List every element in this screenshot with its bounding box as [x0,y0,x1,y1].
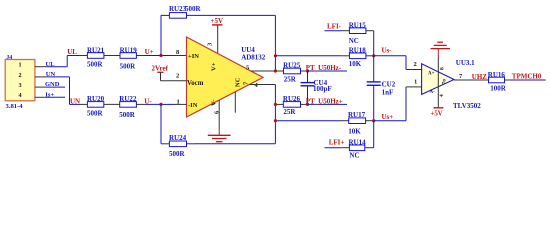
svg-text:7o: 7o [442,79,448,85]
svg-text:100R: 100R [490,84,507,92]
junction RU18 tee [274,54,277,57]
svg-text:V-: V- [211,100,218,106]
capacitor CU2 [367,56,396,121]
wire rail2 to RU20 [70,103,80,105]
resistor RU19 [120,46,138,70]
resistor RU26 [275,95,307,116]
svg-text:J4: J4 [6,55,12,61]
wire feedback bottom rail [187,143,195,145]
svg-text:RU14: RU14 [349,138,367,146]
junction RU17 row [274,119,277,122]
svg-text:NC: NC [349,37,359,45]
svg-text:3: 3 [19,82,22,89]
svg-text:RU17: RU17 [348,111,366,119]
svg-text:500R: 500R [120,62,137,70]
wire feedback bottom right vertical [274,85,276,144]
wire RU19 to node U+ [136,55,144,57]
junction RU26 row [274,103,277,106]
svg-text:TLV3502: TLV3502 [453,102,481,110]
svg-text:25R: 25R [284,76,297,84]
resistor RU16 [488,71,507,93]
wire between RU21 RU19 [104,55,120,57]
wire UN down from stub2 [69,77,71,105]
svg-text:UHZ: UHZ [472,73,488,81]
svg-text:2: 2 [414,61,417,68]
wire PT_U50Hz+ [308,103,348,105]
op-amp U4 AD8132 [176,37,266,117]
svg-text:25R: 25R [283,108,296,116]
power 2Vref port [152,65,169,81]
power +5V down port below comparator [431,108,444,118]
wire feedback bottom left vertical [160,104,162,143]
resistor RU17 [348,111,366,136]
power +5V port [211,17,224,53]
wire between RU20 RU22 [104,103,120,105]
J4 pin 2 stub [35,71,70,78]
svg-text:A-: A- [430,90,436,95]
capacitor CU4 [301,71,332,104]
svg-text:UL: UL [46,61,56,68]
svg-text:RU26: RU26 [283,95,301,103]
resistor RU15 [349,22,367,45]
J4 pin 3 stub [35,81,65,88]
resistor RU21 [87,46,105,68]
junction Us+ [372,119,375,122]
svg-text:4: 4 [439,94,445,97]
resistor RU24 [169,134,187,158]
svg-text:NC: NC [349,151,359,159]
wire RU16 to TPMCH0 [505,79,511,81]
svg-text:U+: U+ [145,48,154,56]
wire op-amp pin5 out [251,70,275,72]
wire op-amp pin4 out [249,84,275,86]
svg-text:+5V: +5V [211,17,224,25]
svg-text:U-: U- [144,98,152,106]
svg-text:RU22: RU22 [119,95,137,103]
comparator UU3.1 TLV3502 [414,59,482,110]
wire RU22 to node U- [136,103,144,105]
svg-text:Us-: Us- [382,46,393,54]
svg-text:+IN: +IN [188,53,199,60]
svg-text:RU18: RU18 [349,47,367,55]
svg-text:100pF: 100pF [313,85,332,93]
J4 pin 1 stub [35,61,67,68]
svg-text:PT_U50Hz+: PT_U50Hz+ [306,98,343,106]
svg-text:8: 8 [440,67,446,70]
svg-text:UL: UL [67,48,77,56]
wire RU14 right up to Us+ [365,147,374,149]
wire Us+ to comparator pin1 [374,120,406,122]
svg-text:RU21: RU21 [87,46,105,54]
svg-text:LFI-: LFI- [327,23,342,31]
resistor RU22 [119,95,137,119]
wire RU17 row left [275,120,340,122]
svg-text:GND: GND [45,81,60,88]
wire feedback top rail [187,14,276,16]
inverted ground above comparator [431,42,451,48]
svg-text:10K: 10K [348,127,361,135]
svg-text:4: 4 [19,92,22,99]
svg-text:2: 2 [176,73,179,80]
ground under op-amp [208,135,231,141]
resistor RU20 [87,95,105,117]
svg-text:2: 2 [19,72,22,79]
wire tee to RU18 [275,55,341,57]
svg-text:10K: 10K [349,60,362,68]
wire PT_U50Hz- [308,70,348,72]
svg-text:UU3.1: UU3.1 [456,59,475,67]
svg-text:Vocm: Vocm [187,80,204,87]
svg-text:3.81-4: 3.81-4 [6,103,24,110]
svg-text:500R: 500R [169,150,186,158]
svg-text:RU19: RU19 [120,46,138,54]
svg-text:1: 1 [19,62,22,69]
svg-text:RU23: RU23 [169,5,187,13]
svg-text:500R: 500R [87,110,104,118]
wire into op-amp pin 8 [161,55,175,57]
junction Us- [372,54,375,57]
svg-text:-IN: -IN [188,102,198,109]
connector J4 [5,55,35,110]
svg-text:Us+: Us+ [382,113,394,121]
svg-text:CU2: CU2 [382,80,396,88]
resistor RU18 [349,47,367,68]
resistor RU25 [275,62,307,84]
svg-text:500R: 500R [87,61,104,69]
op-amp pin6 V- stem [218,100,220,129]
svg-text:RU25: RU25 [283,62,301,70]
junction pin5 [274,69,277,72]
svg-text:TPMCH0: TPMCH0 [512,73,542,81]
op-amp pin7 NC stub [234,92,236,113]
wire LFI+ to RU14 [325,147,342,149]
svg-text:RU15: RU15 [349,22,367,30]
wire Vocm pin2 [161,80,187,82]
junction CU4 top [306,69,309,72]
svg-text:1nF: 1nF [382,88,394,96]
svg-text:1: 1 [414,78,417,85]
svg-text:PT_U50Hz-: PT_U50Hz- [306,64,342,72]
svg-text:Is+: Is+ [45,91,54,98]
junction CU4 bottom [306,103,309,106]
svg-text:RU20: RU20 [87,95,105,103]
wire RU17 to Us+ node [366,120,374,122]
svg-text:LFI+: LFI+ [329,138,345,146]
svg-text:NC: NC [235,77,242,87]
svg-text:A+: A+ [428,72,435,77]
wire LFI- to RU15 [325,30,342,32]
wire RU18 to Us- node [366,55,374,57]
wire feedback top left vertical [160,15,162,55]
svg-text:V+: V+ [211,62,218,71]
junction +IN [159,54,162,57]
resistor RU14 [349,138,367,159]
svg-text:500R: 500R [185,5,202,13]
svg-text:500R: 500R [119,111,136,119]
wire into op-amp pin 1 [161,103,175,105]
wire UL up from stub1 [66,56,68,67]
comparator power line pin8 pin4 [437,49,439,57]
junction -IN [159,103,162,106]
wire comparator output pin7 [454,79,489,81]
resistor RU23 [169,5,202,18]
J4 pin 4 stub [35,91,65,98]
wire rail1 to RU21 [67,55,79,57]
svg-text:AD8132: AD8132 [241,54,266,62]
wire feedback top right vertical [274,15,276,71]
wire Us- to comparator pin2 [374,55,406,57]
wire RU15 right down to Us- [366,30,374,32]
svg-text:RU24: RU24 [169,134,187,142]
svg-text:UN: UN [46,71,56,78]
svg-text:RU16: RU16 [488,71,506,79]
svg-text:+5V: +5V [431,110,443,117]
svg-text:2Vref: 2Vref [152,65,169,73]
